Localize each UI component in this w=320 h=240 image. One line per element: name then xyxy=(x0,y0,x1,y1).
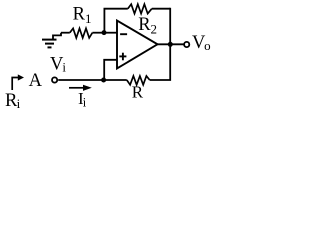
arrow: current Ii xyxy=(69,85,92,91)
wire: right vertical to output node xyxy=(169,8,171,45)
wire: output node down to bottom corner xyxy=(150,44,171,80)
terminal Vi xyxy=(52,77,57,82)
ground xyxy=(42,33,61,48)
svg-text:R: R xyxy=(132,82,144,101)
wire: - input xyxy=(104,32,117,34)
arrow: Ri looking into node A xyxy=(12,74,24,90)
wire: bottom rail Vi to R xyxy=(58,79,127,81)
svg-text:A: A xyxy=(29,71,43,91)
wire: apex to Vo terminal xyxy=(157,43,184,45)
wire: R1 to node xyxy=(92,32,104,34)
node: output junction xyxy=(168,42,173,47)
resistor R2 xyxy=(128,4,152,13)
wire: + input riser xyxy=(104,60,117,80)
terminal Vo xyxy=(184,42,189,47)
node: non-inverting rail junction xyxy=(101,78,106,83)
wire: node to R2 branch xyxy=(104,9,127,33)
resistor R1 xyxy=(70,28,93,38)
node: inverting input junction xyxy=(102,30,107,35)
wire: ground to R1 xyxy=(61,32,70,34)
wire: R2 to right rail xyxy=(152,8,170,10)
op-amp U1 xyxy=(117,21,158,69)
resistor R xyxy=(127,76,150,85)
